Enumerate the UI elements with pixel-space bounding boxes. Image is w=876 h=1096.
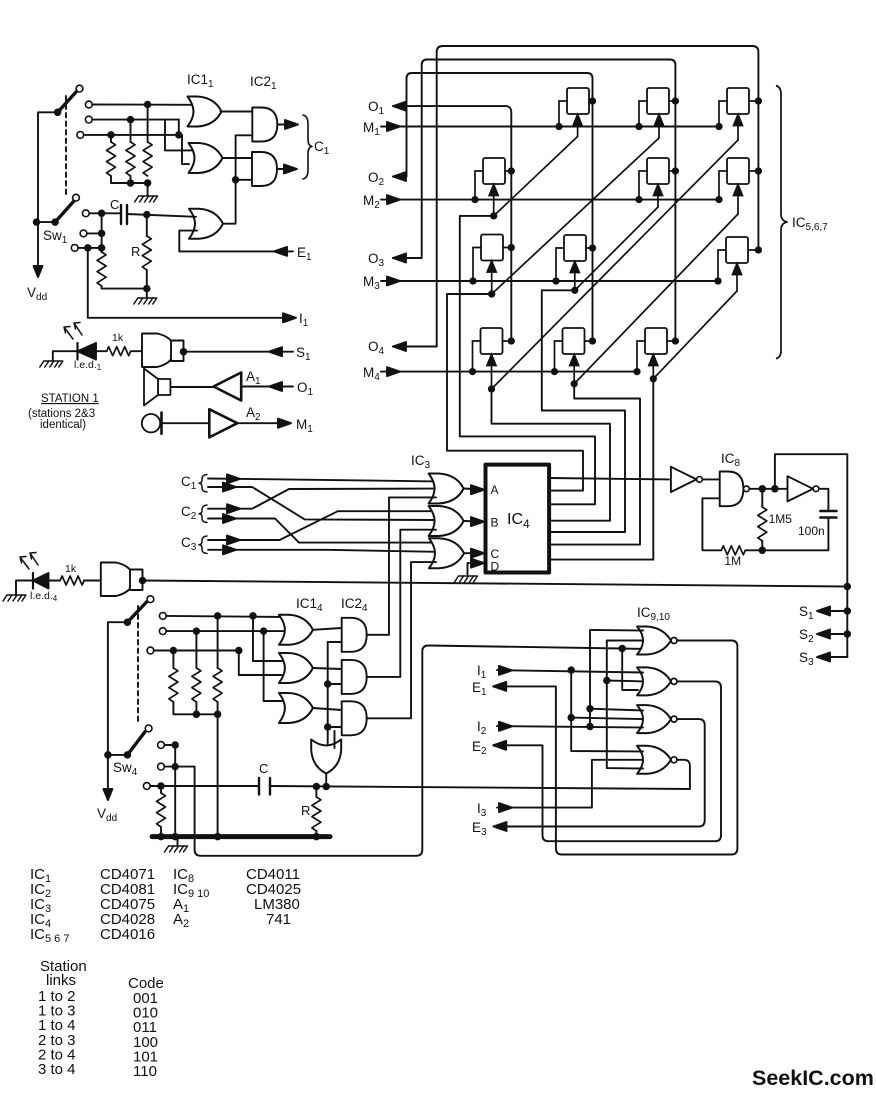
svg-text:C1: C1 (314, 139, 330, 157)
svg-text:D: D (491, 560, 500, 574)
and-gate IC2_1b (252, 152, 277, 186)
or-gate IC1_1c (189, 209, 223, 239)
wire c1 line (166, 616, 285, 617)
svg-text:E2: E2 (472, 739, 487, 757)
or-gate IC1_4b (279, 653, 313, 683)
wire c6 / E4 line with capacitor C (150, 786, 690, 789)
wire v4 mesh (622, 649, 638, 691)
capacitor 100n (820, 511, 836, 518)
wire c5 (164, 766, 194, 768)
amp A1 (170, 386, 213, 388)
wire OR3 out up to AND feed (223, 135, 252, 223)
svg-text:IC14: IC14 (296, 596, 323, 614)
wire IC3C out to pin C (465, 552, 481, 554)
wire column 4 vertical (757, 101, 759, 248)
wire S3 (820, 656, 847, 658)
gate S4 buffer (101, 563, 133, 597)
wire C3b to C2 (208, 550, 436, 552)
svg-text:I1: I1 (477, 663, 487, 681)
wire O1 line (241, 386, 293, 388)
svg-text:B: B (491, 516, 499, 530)
resistor lower-left (97, 252, 106, 286)
svg-text:M1: M1 (363, 120, 380, 138)
wire IC3A out to pin A (464, 489, 480, 490)
wire diagonal link 2-3 (575, 207, 658, 290)
svg-text:S1: S1 (799, 604, 814, 622)
Vdd arrow (34, 266, 43, 277)
analog switch r2c3 (647, 158, 669, 184)
wire IC4 out7 to r4c3 ctl (549, 379, 653, 560)
wire v2 mesh (590, 630, 643, 727)
ground st4 (165, 846, 188, 852)
nor-gate IC9b (637, 667, 677, 695)
analog switch r4c3 (645, 328, 667, 354)
gate S1 buffer (142, 334, 174, 368)
analog switch r2c4 (727, 158, 749, 184)
svg-text:identical): identical) (40, 419, 86, 431)
node terminals group1 st4 (159, 613, 166, 620)
wire S long line (143, 581, 848, 587)
svg-text:1k: 1k (65, 563, 77, 575)
wire O3 line (393, 65, 422, 258)
svg-text:links: links (46, 972, 76, 989)
analog switch r1c3 (647, 88, 669, 114)
resistor R st4 (315, 787, 317, 798)
wire column 1 vertical (510, 171, 512, 341)
wire line2 to OR2 in1 (165, 120, 196, 151)
wire top feedback to S rail (775, 454, 847, 586)
wire IC4 out1 to IC8 (549, 478, 669, 479)
IC4 box (486, 465, 550, 573)
resistor 1M (745, 549, 762, 551)
resistor R1a (110, 135, 112, 142)
wire O2 line (393, 79, 407, 177)
svg-text:C1: C1 (181, 474, 197, 492)
svg-text:A1: A1 (246, 369, 261, 387)
wire C2a to A2 (208, 489, 436, 509)
svg-text:R: R (131, 244, 140, 259)
or-gate IC1_1b (189, 143, 223, 173)
nand IC8 (720, 472, 744, 507)
wire M2 line (381, 199, 719, 201)
svg-text:C2: C2 (181, 504, 197, 522)
svg-text:IC8: IC8 (721, 451, 741, 469)
svg-text:A: A (491, 483, 499, 497)
node terminals group2 (82, 210, 89, 217)
wire S1 line (184, 351, 294, 353)
analog switch r1c4 (727, 88, 749, 114)
wire OR1 out to AND1 (221, 111, 253, 113)
or-gate IC3 C (429, 538, 464, 568)
wire diagonal link 3-4 (653, 291, 737, 379)
led l.e.d.1 (40, 361, 63, 367)
wire input line 1 (92, 104, 193, 106)
analog switch r1c2 (567, 88, 589, 114)
svg-text:O2: O2 (368, 170, 385, 188)
analog switch r3c4 (726, 237, 748, 263)
svg-text:110: 110 (133, 1063, 157, 1080)
analog switch r3c1 (481, 235, 503, 261)
nor-gate IC9c (637, 705, 677, 733)
node terminals group2 st4 (158, 742, 165, 749)
analog switch r4c1 (481, 328, 503, 354)
wire IC4 out4 to r4c1 ctl (492, 389, 611, 521)
wire C2b to C1 (208, 519, 436, 543)
ground D (455, 576, 478, 582)
ground led4 (3, 595, 26, 601)
wire OR4 out (325, 774, 327, 787)
svg-text:1M5: 1M5 (769, 512, 793, 526)
svg-text:O4: O4 (368, 339, 385, 357)
wire S1 (820, 610, 847, 612)
wire inv2 out to cap (819, 489, 829, 511)
resistor 1k (4) (60, 576, 84, 585)
svg-text:Vdd: Vdd (27, 285, 47, 303)
analog switch r3c2 (564, 235, 586, 261)
wire E3 wrap from IC9c (494, 719, 705, 826)
led l.e.d.4 (32, 573, 34, 589)
wire input line 2 (92, 119, 179, 121)
svg-text:Sw1: Sw1 (43, 228, 68, 246)
svg-text:E1: E1 (472, 680, 487, 698)
svg-text:O1: O1 (368, 99, 385, 117)
wire M3 line (381, 280, 718, 282)
capacitor C st4 (259, 778, 270, 795)
wire E4 drop from IC10a (677, 760, 690, 789)
wire I1 line (88, 248, 284, 318)
nor-gate IC9a (637, 627, 677, 655)
wire IC4 out3 to r2c1 ctl (460, 216, 595, 504)
svg-text:I1: I1 (299, 311, 309, 329)
svg-text:M4: M4 (363, 365, 380, 383)
node terminals group1 (85, 101, 92, 108)
wire O1 line (393, 106, 511, 171)
resistor R1c (147, 105, 149, 143)
wire C1b to B2 (208, 487, 436, 520)
wire D pin ground feed (468, 563, 481, 575)
brace C1 (303, 115, 312, 179)
analog switch r4c2 (563, 328, 585, 354)
wire c4 (164, 745, 175, 837)
svg-text:S3: S3 (799, 650, 814, 668)
or-gate IC3 B (429, 506, 464, 536)
amp A2 (209, 409, 237, 437)
svg-text:R: R (301, 803, 310, 818)
wire line3 to OR1 in2 (178, 120, 180, 135)
brace IC5,6,7 (776, 86, 788, 359)
svg-text:S2: S2 (799, 627, 814, 645)
wire AND outputs up to IC3 (367, 497, 436, 634)
or-gate IC1_1a (188, 97, 222, 127)
wire OR4 input stub (334, 731, 336, 748)
and-gate IC2_4a (342, 618, 367, 652)
brace C1 in (199, 475, 207, 493)
svg-text:O3: O3 (368, 251, 385, 269)
svg-text:M3: M3 (363, 274, 380, 292)
svg-text:100n: 100n (798, 524, 825, 538)
wire S rail verticals (845, 584, 851, 590)
wire diagonal link 1-4 (492, 140, 739, 389)
wire inv to NAND (702, 478, 719, 480)
wire top line L2 (422, 60, 676, 102)
wire O4 line (393, 52, 437, 347)
wire top line L1 (437, 46, 759, 101)
wire top line L3 (407, 73, 593, 101)
svg-text:S1: S1 (296, 345, 311, 363)
svg-text:Sw4: Sw4 (113, 760, 138, 778)
svg-text:SeekIC.com: SeekIC.com (752, 1066, 874, 1090)
wire input line 3 (84, 135, 189, 164)
microphone (142, 414, 160, 432)
svg-text:STATION 1: STATION 1 (41, 393, 99, 405)
capacitor C (89, 213, 196, 217)
svg-text:3 to 4: 3 to 4 (38, 1061, 76, 1078)
resistor bank st4 (172, 651, 174, 669)
wire M1 line (381, 126, 719, 128)
wire v3 mesh (607, 641, 643, 769)
wire S2 (820, 633, 847, 635)
svg-text:IC5,6,7: IC5,6,7 (792, 215, 828, 233)
wire IC4 out5 to r3c2 ctl (542, 290, 625, 532)
wire AND second input chain (328, 642, 342, 747)
wire OR3 in2 from E1 (179, 231, 197, 252)
svg-text:Vdd: Vdd (97, 806, 117, 824)
inverter 2 (788, 476, 814, 501)
brace C2 in (199, 505, 207, 523)
svg-text:l.e.d.1: l.e.d.1 (74, 359, 102, 372)
resistor left st4 (160, 786, 162, 793)
svg-text:O1: O1 (297, 380, 314, 398)
and-gate IC2_1a (252, 108, 277, 142)
svg-text:A2: A2 (246, 405, 261, 423)
wire diagonal link 1-2 (494, 137, 578, 216)
svg-text:741: 741 (266, 911, 291, 928)
wire NAND out to inv2 (749, 488, 787, 490)
svg-text:IC9,10: IC9,10 (637, 605, 670, 623)
svg-text:C3: C3 (181, 535, 197, 553)
or-gate IC3 A (429, 474, 464, 504)
svg-text:E3: E3 (472, 820, 487, 838)
wire OR outs to AND ins (313, 628, 342, 630)
svg-text:CD4016: CD4016 (100, 926, 155, 943)
wire M4 line (381, 371, 637, 373)
svg-text:IC3: IC3 (411, 453, 431, 471)
and-gate IC2_4c (342, 701, 367, 735)
svg-text:C: C (110, 197, 119, 212)
wire AND1 output C1a (277, 124, 295, 126)
svg-text:I3: I3 (477, 801, 487, 819)
svg-text:M1: M1 (296, 417, 313, 435)
switch Sw1 (38, 112, 58, 269)
and-gate IC2_4b (342, 660, 367, 694)
or-gate IC1_4c (279, 693, 313, 723)
ground (134, 298, 157, 304)
analog switch r2c1 (483, 158, 505, 184)
wire I3 line (497, 760, 643, 808)
wire I2 line (497, 726, 643, 727)
svg-text:IC21: IC21 (250, 74, 277, 92)
svg-text:IC11: IC11 (187, 72, 214, 90)
svg-text:IC24: IC24 (341, 596, 368, 614)
wire M1 line (237, 422, 288, 424)
svg-text:I2: I2 (477, 719, 487, 737)
svg-text:1k: 1k (112, 332, 124, 344)
wire v1 mesh (571, 670, 643, 751)
svg-text:M2: M2 (363, 193, 380, 211)
thick ground rail (152, 834, 330, 839)
wire E1 line (179, 250, 293, 252)
switch Sw4 (108, 622, 128, 792)
wire column 3 vertical (674, 101, 676, 341)
wire c2 line (166, 630, 285, 632)
svg-text:1M: 1M (724, 554, 741, 568)
svg-text:l.e.d.4: l.e.d.4 (30, 590, 58, 603)
svg-text:E1: E1 (297, 245, 312, 263)
wire cross verticals to gates (253, 616, 285, 661)
wire C1a to A1 (208, 479, 436, 482)
svg-text:C: C (259, 761, 268, 776)
ground (135, 196, 158, 202)
wire diagonal link 1-3 (492, 138, 659, 294)
resistor R (146, 215, 148, 236)
or-gate 4-input pointing down (311, 740, 341, 774)
wire I1 line (497, 670, 643, 672)
resistor R1b (130, 120, 132, 142)
wire column 2 vertical (592, 101, 594, 341)
nor-gate IC10a (637, 746, 677, 774)
wire resistor bottom rail (111, 176, 148, 195)
wire diagonal link 2-4 (574, 214, 738, 384)
resistor 1M5 (761, 489, 763, 507)
speaker (158, 379, 170, 395)
wire E1 wrap from IC9a (493, 641, 737, 855)
wire E2 wrap from IC9b (493, 681, 721, 841)
wire c3 line (154, 650, 239, 652)
wire C3a to B1 (208, 511, 436, 540)
wire IC3B out to pin B (464, 520, 480, 523)
inverter pre IC8 (671, 467, 697, 492)
brace C3 in (199, 536, 207, 554)
wire IC4 out6 to r4c2 ctl (549, 384, 640, 545)
wire I4 loop to IC9 (195, 646, 643, 856)
wire OR2 out to AND2 (223, 157, 253, 159)
resistor 1k (107, 347, 131, 356)
or-gate IC1_4a (279, 615, 313, 645)
wire AND2 output C1b (277, 168, 294, 170)
wire IC4 out2 to r3c1 ctl (447, 294, 583, 491)
